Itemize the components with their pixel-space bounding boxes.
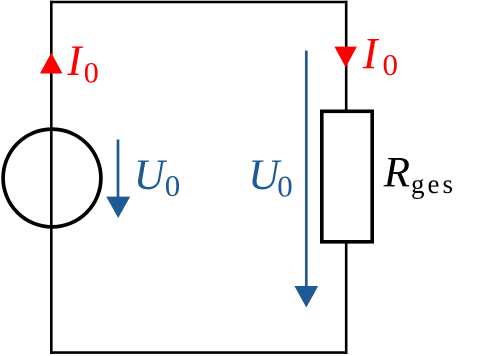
arrow: U0 voltage arrow at source (blue, down): [117, 140, 120, 199]
wire: left side: [50, 1, 53, 354]
label I0 right: [362, 29, 398, 82]
label R_ges: [383, 150, 456, 200]
label U0 middle: [248, 152, 292, 204]
arrow: I0 current arrow right (red, down): [334, 47, 356, 68]
svg-text:I: I: [362, 29, 380, 78]
wire: top side: [50, 1, 348, 4]
source U0 (circle symbol): [3, 129, 101, 227]
arrow: I0 current arrow left (red, up): [40, 53, 62, 74]
label U0 left: [134, 152, 181, 203]
svg-text:ges: ges: [411, 169, 456, 199]
wire: right side: [345, 1, 348, 354]
wire: bottom side: [50, 351, 348, 354]
label I0 left: [66, 38, 98, 89]
svg-text:0: 0: [383, 47, 399, 82]
svg-text:U: U: [134, 152, 168, 199]
svg-text:0: 0: [277, 169, 293, 204]
svg-text:0: 0: [165, 168, 181, 203]
arrow: U0 voltage arrow at resistor (blue, down): [305, 51, 308, 288]
svg-text:I: I: [66, 38, 83, 85]
svg-text:0: 0: [84, 56, 99, 89]
resistor R_ges: [322, 111, 372, 242]
svg-text:R: R: [383, 150, 410, 197]
